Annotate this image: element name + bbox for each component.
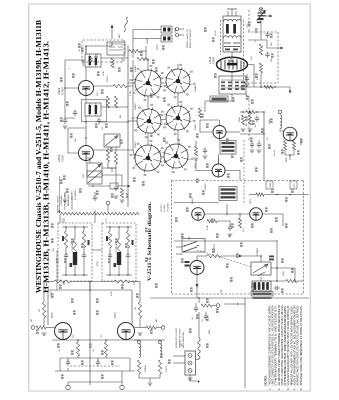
resistor R17 xyxy=(286,279,297,282)
svg-text:1M: 1M xyxy=(39,309,41,312)
svg-text:CONV: CONV xyxy=(213,57,216,64)
capacitor C5 xyxy=(265,52,269,59)
resistor R19 xyxy=(114,280,130,283)
V5 filament resistors xyxy=(283,141,286,150)
socket interconnect wires xyxy=(147,96,149,109)
resistor R10 xyxy=(241,115,244,125)
wire transformer top xyxy=(260,256,262,262)
resistor R7 xyxy=(264,85,273,88)
svg-text:2.: 2. xyxy=(278,388,281,390)
switch SW1 arm 2 xyxy=(184,247,197,252)
tube V6 12AV6 xyxy=(192,208,205,221)
svg-text:OSC: OSC xyxy=(122,57,124,62)
wire to terminal dot xyxy=(224,303,236,305)
wire V4 right xyxy=(225,171,240,181)
wire tail x199 gnd xyxy=(64,192,66,199)
wire center x90 xyxy=(89,282,91,386)
feed terminal above couplates xyxy=(106,201,110,205)
wires vol right xyxy=(102,168,116,185)
tube V2 12BE6 converter xyxy=(79,146,94,161)
P1 capacitor Ca xyxy=(64,253,68,260)
wire y16 top left xyxy=(85,46,87,54)
capacitor C7 xyxy=(257,142,261,149)
svg-text:4.: 4. xyxy=(294,388,297,390)
wire x264 vertical xyxy=(263,112,265,180)
wire down to choke xyxy=(198,312,200,338)
wave trap cans xyxy=(161,26,172,33)
P1 inner wires xyxy=(65,248,67,255)
svg-text:REAR OF CHASSIS: REAR OF CHASSIS xyxy=(189,28,192,48)
svg-text:220K: 220K xyxy=(97,261,99,266)
wire T2 to V2 xyxy=(85,116,87,146)
svg-text:1M: 1M xyxy=(120,115,122,118)
resistor R8 above sockets xyxy=(137,57,149,60)
label boxed AC xyxy=(251,292,273,297)
IF transformer T3 (label box) xyxy=(220,141,236,155)
wire V8 bottom xyxy=(196,275,198,299)
switch SW1 arm 1 xyxy=(184,242,197,247)
couplate module P2 dashed box xyxy=(102,223,136,281)
svg-text:LINE: LINE xyxy=(209,329,211,334)
wire y221 xyxy=(197,219,199,222)
wire coil to V5 xyxy=(280,129,283,131)
socket S3 (12AV6 bottom view) xyxy=(137,109,161,133)
socket feed wires xyxy=(147,66,149,70)
wire x72 down to sawtooth xyxy=(71,196,73,210)
wire y268 right xyxy=(271,267,295,269)
svg-text:220K: 220K xyxy=(103,71,105,76)
svg-text:PHONO JACKS ON: PHONO JACKS ON xyxy=(186,29,189,48)
wire B+ line y298 xyxy=(150,297,309,299)
wires to wave trap xyxy=(150,29,161,31)
pilot lamp right xyxy=(121,371,123,386)
capacitor C8 xyxy=(250,142,254,149)
gnd plug xyxy=(188,378,193,380)
dashed section border xyxy=(172,180,304,182)
wire x277 down from 268 xyxy=(276,267,278,269)
arrow down under V8 xyxy=(195,284,198,287)
wire step to arrow xyxy=(248,40,281,48)
svg-text:2.2M: 2.2M xyxy=(130,91,132,96)
wire from S5 to left xyxy=(133,157,135,159)
wire from oval tube right xyxy=(248,65,255,88)
junction dots xyxy=(260,86,262,88)
wire dropper tops xyxy=(138,340,140,342)
wire V9 down xyxy=(62,339,64,342)
resistor R16 xyxy=(207,254,221,257)
svg-text:PILOT: PILOT xyxy=(166,365,168,372)
svg-text:10K: 10K xyxy=(75,138,77,142)
wire between couplates xyxy=(92,249,102,251)
svg-text:SW: SW xyxy=(189,237,191,240)
interstage transformer T5 (label box) xyxy=(219,187,237,201)
P2 inner wires xyxy=(109,248,111,255)
P2 capacitor Ca xyxy=(108,253,112,260)
svg-text:MFD: MFD xyxy=(286,157,288,162)
P2 resistor Rc xyxy=(126,231,129,248)
capacitor C13 xyxy=(66,360,70,367)
resistor R1 xyxy=(111,58,114,68)
filament dropper 1 terminal xyxy=(137,340,141,344)
wire B-minus return x245 xyxy=(244,298,246,388)
label row 2 xyxy=(253,297,272,299)
svg-text:ON-OFF: ON-OFF xyxy=(214,243,216,252)
selenium rectifier hatched box xyxy=(252,281,271,291)
svg-text:40+40: 40+40 xyxy=(274,149,276,156)
wire branch right y84 xyxy=(94,85,114,87)
svg-text:OUTPUT: OUTPUT xyxy=(161,203,163,212)
svg-text:455KC: 455KC xyxy=(157,43,159,50)
capacitor C15 xyxy=(194,306,198,313)
junction dots power xyxy=(260,255,262,257)
plug prong 2 xyxy=(188,361,192,365)
svg-text:12AV6: 12AV6 xyxy=(204,183,207,190)
wire T3 to V4 skip xyxy=(218,154,220,164)
svg-text:50C5: 50C5 xyxy=(52,312,54,318)
small diagonal element below xyxy=(258,272,265,276)
boxed label 2 xyxy=(290,181,297,189)
socket S1 (12BA6 bottom view) xyxy=(135,70,161,96)
P2 inner marks xyxy=(106,236,108,241)
wire y134 horizontal xyxy=(240,133,264,135)
svg-text:12BE6: 12BE6 xyxy=(135,65,137,72)
T2 outer frame xyxy=(82,100,107,122)
capacitor C4 xyxy=(265,32,269,39)
terminal top xyxy=(259,8,263,12)
svg-text:470K: 470K xyxy=(207,225,209,230)
svg-text:10K: 10K xyxy=(271,58,273,62)
svg-text:CONV: CONV xyxy=(62,155,65,162)
resistor R27 xyxy=(106,150,109,162)
switch dashed gang line xyxy=(197,250,252,267)
P2 capacitor Cb xyxy=(126,253,130,260)
grounds mid right xyxy=(257,150,262,152)
wire choke to plug xyxy=(196,358,199,360)
dashed box around osc section xyxy=(82,40,124,62)
svg-text:35W4: 35W4 xyxy=(270,182,272,188)
capacitor bars left of V8 xyxy=(185,261,190,263)
socket S6 (50C5 bottom view) xyxy=(164,144,188,168)
socket S2 (12BE6 bottom view) xyxy=(166,69,190,93)
small box on y186 xyxy=(110,183,118,189)
wire droppers bottom xyxy=(139,374,160,378)
resistor R2 xyxy=(113,84,127,87)
capacitor C12 xyxy=(93,195,97,202)
plug prong 3 xyxy=(188,369,192,373)
terminal osc coil top xyxy=(278,110,281,113)
resistor R22 xyxy=(76,342,79,356)
svg-text:NOTES:: NOTES: xyxy=(264,375,268,386)
wire branch right y58 xyxy=(101,57,128,59)
printed circuit sawtooth border xyxy=(60,212,139,215)
volume control (pot with arrow) xyxy=(87,163,102,177)
ground under C3 xyxy=(63,126,68,128)
P1 inner marks xyxy=(62,236,64,241)
wire sockets to bus xyxy=(128,82,135,84)
resistor R24 xyxy=(201,304,212,307)
filament dropper 1 coil xyxy=(139,344,141,358)
resistor R23 xyxy=(104,342,107,356)
tube V8 50C5 xyxy=(190,261,204,275)
P2 resistor Ra xyxy=(108,231,111,248)
svg-text:12AV6: 12AV6 xyxy=(191,197,194,204)
svg-text:12BA6: 12BA6 xyxy=(194,85,197,92)
dashed x244 upper xyxy=(243,140,245,204)
P1 top wire xyxy=(62,226,88,228)
capacitor C9 xyxy=(114,185,118,192)
svg-text:COUPLATE: COUPLATE xyxy=(60,195,63,206)
terminal left with resistor xyxy=(31,326,35,330)
wire V3b to T3 xyxy=(219,139,221,141)
wire right edge x298 xyxy=(297,133,298,135)
wire x133 vertical xyxy=(132,60,134,150)
wire V1 plate to T1 xyxy=(85,67,87,81)
phono jack terminals xyxy=(176,28,179,31)
tube V9 50C5 output left xyxy=(55,323,72,340)
wire plug left leads xyxy=(173,355,185,357)
pilot lamp left xyxy=(67,382,69,386)
resistor R3 xyxy=(106,96,109,108)
svg-text:47K: 47K xyxy=(97,92,99,96)
wire y241 xyxy=(174,240,277,242)
tube V3b 12BA6 2nd IF xyxy=(213,126,226,139)
P2 bottom wire xyxy=(106,274,132,276)
small caps left of bus xyxy=(245,76,249,83)
resistor R14 xyxy=(207,219,217,222)
P2 top wire xyxy=(106,226,132,228)
svg-text:MEASURED: MEASURED xyxy=(67,194,70,206)
wire branch right y107 xyxy=(101,106,128,108)
svg-text:470K: 470K xyxy=(111,291,113,296)
resistor R8b xyxy=(129,49,140,52)
wire V4 assembly xyxy=(212,164,225,177)
svg-text:1.: 1. xyxy=(268,388,271,390)
tube V1 12BA6 IF amp xyxy=(79,81,94,96)
antenna lead squiggle xyxy=(124,17,128,32)
tiny value labels texture xyxy=(78,46,81,48)
svg-text:LOOP: LOOP xyxy=(215,30,217,36)
oscillator coil box xyxy=(107,42,125,55)
capacitor C18 marks xyxy=(269,256,274,258)
dot y195 xyxy=(276,194,278,196)
resistor R26 xyxy=(194,146,197,156)
wire x65 down xyxy=(65,88,75,118)
wire x227 up xyxy=(226,204,228,214)
P1 resistor Rc xyxy=(82,231,85,248)
wire y29-38 stubs xyxy=(133,29,150,31)
wire bus y382 xyxy=(68,381,122,383)
capacitor C2 xyxy=(73,110,77,117)
svg-text:50C5: 50C5 xyxy=(115,312,117,318)
wire x232 if feed xyxy=(231,94,233,101)
wire tube bottom to IF bus xyxy=(231,72,233,86)
svg-text:VOL: VOL xyxy=(83,173,85,178)
wave trap box xyxy=(104,134,120,147)
trimmer capacitor CT1 xyxy=(258,13,266,16)
wire y186 run xyxy=(88,185,110,187)
svg-text:PRINTED CIRCUIT: PRINTED CIRCUIT xyxy=(58,195,60,213)
svg-text:AM: AM xyxy=(155,319,158,322)
wire x196 xyxy=(195,141,197,146)
svg-text:SOCKET: SOCKET xyxy=(164,203,166,212)
tube V7 50C5 output xyxy=(250,208,263,221)
wire x261 to bus xyxy=(260,73,262,87)
wire notes top stub xyxy=(237,303,245,305)
interlock plug box xyxy=(185,351,196,375)
svg-text:50C5: 50C5 xyxy=(250,198,252,204)
wire misc x146 y60 xyxy=(145,46,147,52)
resistor R9 xyxy=(246,110,255,113)
IF transformer T2 (2nd IF) xyxy=(85,103,101,116)
wire top edge y46 run xyxy=(111,42,113,46)
capacitor C3 xyxy=(63,118,67,125)
capacitor C16 xyxy=(204,314,208,321)
wire y112 xyxy=(240,111,246,113)
socket S4 (12AX7 bottom view) xyxy=(166,106,190,130)
ground stubs xyxy=(194,158,199,160)
resistor R4 xyxy=(114,96,117,108)
wire osc vertical xyxy=(260,20,262,40)
terminal antenna ext xyxy=(216,304,220,308)
resistor R21 right xyxy=(138,302,141,318)
leader line with arrow xyxy=(59,176,61,211)
wire couplate feeds xyxy=(63,218,65,223)
resistor R18 xyxy=(54,280,70,283)
resistor R12 xyxy=(256,193,264,196)
wire T1 top lead xyxy=(86,46,112,54)
svg-text:3.: 3. xyxy=(287,388,290,390)
wire V3b right xyxy=(226,131,240,133)
svg-text:H-M1312B, H-M1313B, H-M1410, H: H-M1312B, H-M1313B, H-M1410, H-M1411, H-… xyxy=(43,41,51,293)
wire bus y371 xyxy=(55,370,135,372)
wire V3b top xyxy=(219,120,221,126)
svg-text:ANT: ANT xyxy=(118,33,121,38)
power transformer box xyxy=(251,262,271,275)
filament dropper 2 resistor xyxy=(158,360,161,374)
svg-text:TRAP: TRAP xyxy=(174,27,177,33)
svg-text:12AX7: 12AX7 xyxy=(194,123,197,130)
svg-text:1M: 1M xyxy=(135,307,137,310)
wire tube down xyxy=(85,161,87,163)
wire y256 xyxy=(197,255,207,257)
resistor R13 xyxy=(120,188,123,198)
converter lower box xyxy=(219,76,246,94)
wire V1 to T2 xyxy=(85,96,87,104)
wire V5 down xyxy=(289,155,291,160)
resistor R15 xyxy=(238,218,241,228)
cap C17 xyxy=(203,148,207,155)
wire V7 right xyxy=(262,214,283,226)
svg-text:7.5K: 7.5K xyxy=(221,289,223,294)
filament dropper 2 coil xyxy=(160,344,162,358)
tube V3 12BE6 envelope (horizontal oval) xyxy=(217,57,248,71)
P1 capacitor bar (solid) xyxy=(73,252,77,265)
resistor R20 left xyxy=(42,302,45,318)
couplate module P1 dashed box xyxy=(58,223,92,281)
svg-text:FM: FM xyxy=(31,319,33,322)
resistor R25 xyxy=(198,108,201,118)
plug prong 1 xyxy=(188,354,192,358)
wire top inside y202 xyxy=(174,202,219,204)
switch box xyxy=(182,239,205,253)
wire antenna arrow xyxy=(111,27,113,39)
svg-text:455KC: 455KC xyxy=(107,75,109,82)
wire y101 xyxy=(205,100,232,102)
capacitor C11 xyxy=(274,286,281,290)
P2 resistor Rb xyxy=(117,239,120,261)
svg-text:12AV6: 12AV6 xyxy=(134,103,137,110)
tube V10 50C5 output right xyxy=(118,323,135,340)
svg-text:5.: 5. xyxy=(300,388,303,390)
capacitor C1 xyxy=(97,118,101,125)
wire coil to tube xyxy=(231,52,233,57)
wire bus x128 vertical xyxy=(127,45,129,207)
svg-text:150MA: 150MA xyxy=(144,365,147,372)
wire transformer to ballast xyxy=(260,277,262,281)
455KC label box top xyxy=(210,96,228,102)
wire x277 vertical xyxy=(276,240,278,281)
wire cathode bus y340 xyxy=(52,339,138,341)
svg-text:IF AMP: IF AMP xyxy=(62,87,65,95)
svg-text:1ST AUDIO: 1ST AUDIO xyxy=(74,189,77,200)
socket S5 (50C5 bottom view) xyxy=(135,145,161,171)
output section box xyxy=(48,289,132,291)
antenna terminal xyxy=(227,8,237,10)
dashed line y366 xyxy=(70,365,120,367)
wire branch right y150 xyxy=(94,149,134,151)
wire branch right y122 xyxy=(99,121,128,123)
P1 capacitor Cb xyxy=(82,253,86,260)
wire couplate left feed xyxy=(56,250,58,290)
wire switch left xyxy=(176,246,183,248)
capacitor C6 xyxy=(255,116,259,123)
IF transformer T1 (1st IF) xyxy=(85,54,101,67)
wire grid left V1 xyxy=(65,60,85,88)
line cord choke (wavy) xyxy=(198,338,200,359)
svg-text:INTERLOCK. DO NOT: INTERLOCK. DO NOT xyxy=(176,327,178,348)
wire vol to tube V2 xyxy=(86,158,90,163)
tube V5 35W4 rectifier xyxy=(283,127,297,141)
oscillator coil L2 xyxy=(280,115,282,129)
wire V4 left xyxy=(196,160,212,171)
wire sawtooth left drop xyxy=(59,215,61,223)
boxed label 1 xyxy=(266,181,273,189)
wire couplate outputs down xyxy=(63,281,65,285)
svg-text:SPEAKER VOICE COIL IMPEDANCE 3: SPEAKER VOICE COIL IMPEDANCE 3.2 OHMS AT… xyxy=(300,305,303,385)
arrow down at 290 xyxy=(289,87,291,91)
wire plug bottom out xyxy=(190,375,197,381)
svg-text:VOLTAGE: VOLTAGE xyxy=(166,203,169,212)
wire bus y358 xyxy=(60,357,130,359)
P2 capacitor bar (solid) xyxy=(117,252,121,265)
filament dropper 1 resistor xyxy=(137,360,140,374)
resistor R28 xyxy=(114,152,117,164)
wire x199 from bus xyxy=(198,298,200,303)
wire bus y87 xyxy=(240,86,290,88)
svg-text:V-2511-5 Schematic diagram.: V-2511-5 Schematic diagram. xyxy=(148,201,153,281)
resistor R6 xyxy=(259,63,262,73)
resistor R11 xyxy=(248,115,251,125)
wire y281 right xyxy=(269,280,286,282)
svg-text:150K: 150K xyxy=(239,117,241,122)
RF antenna coil box xyxy=(223,16,241,52)
junction dots B+ xyxy=(242,111,244,113)
wire y120 h xyxy=(200,119,219,121)
wire grid left V2 xyxy=(68,128,86,153)
wire phase bus y281 xyxy=(44,281,54,283)
P1 bottom wire xyxy=(62,274,88,276)
P1 resistor Ra xyxy=(64,231,67,248)
